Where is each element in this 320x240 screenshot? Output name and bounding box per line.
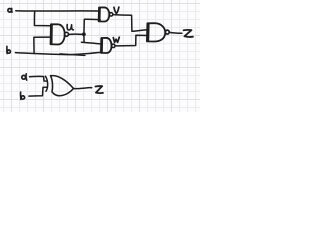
wire b doubled stroke (60, 54, 85, 56)
wire v output to final NAND top input (113, 15, 148, 32)
wire b into XOR bottom input (29, 87, 47, 96)
NAND gate w body (101, 38, 112, 53)
NAND u output bubble (65, 32, 69, 36)
NAND v output bubble (109, 13, 112, 16)
wire b branch up to NAND u bottom input (34, 37, 51, 53)
junction node on u (82, 32, 86, 36)
NAND gate u body (51, 24, 65, 44)
wire z output (bottom) (73, 88, 91, 89)
label u (node u) (67, 25, 73, 30)
label b (top circuit input b) (7, 46, 11, 53)
graph paper grid (0, 0, 200, 112)
final NAND gate body (147, 23, 165, 41)
wire w output to final NAND bottom input (115, 35, 148, 46)
label v (node v) (114, 7, 119, 13)
label b (bottom circuit input b) (21, 92, 25, 100)
XOR gate body (51, 76, 74, 96)
wire a to NAND v top input (16, 10, 99, 12)
label a (top circuit input a) (8, 8, 12, 12)
wire a into XOR top input (30, 76, 48, 81)
wire a branch down to NAND u top input (34, 11, 50, 25)
final NAND output bubble (165, 30, 169, 34)
wire z output (170, 31, 182, 34)
wire junction up to NAND v bottom input (84, 19, 100, 34)
wire u output to junction (69, 33, 84, 35)
label a (bottom circuit input a) (22, 74, 27, 80)
label z (top circuit output z) (184, 30, 193, 37)
label w (node w) (113, 37, 119, 42)
wire b to NAND w bottom input (15, 52, 100, 54)
wire junction down to NAND w top input (82, 34, 101, 44)
NAND w output bubble (112, 44, 115, 47)
XOR gate input curve (46, 76, 48, 91)
label z (bottom circuit output z) (95, 86, 103, 93)
NAND gate v body (99, 7, 110, 21)
